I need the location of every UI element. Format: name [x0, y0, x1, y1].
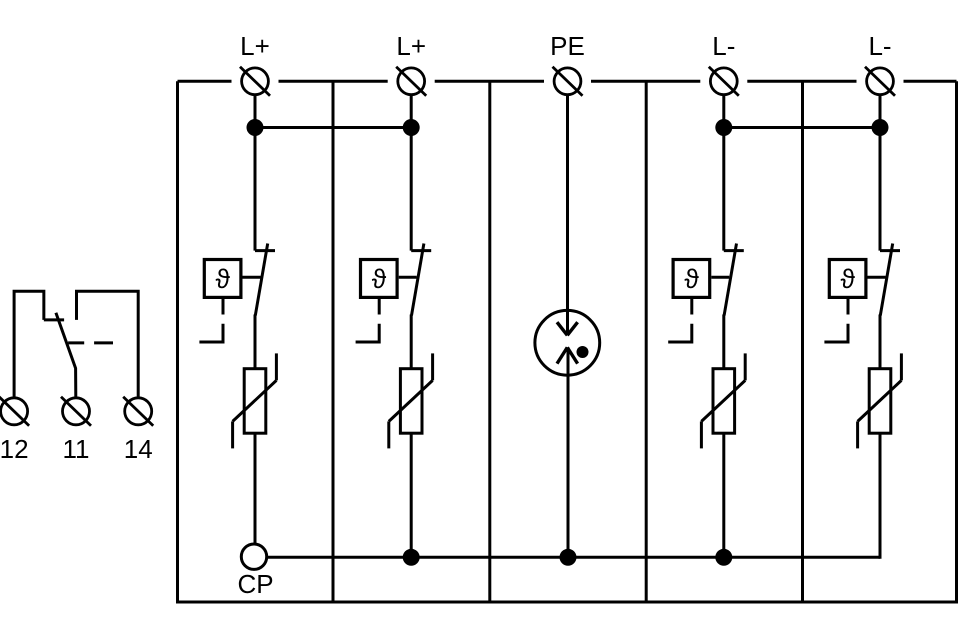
wire varistor col4 down to bus	[722, 433, 725, 557]
wire linking junction dots col1-col2	[255, 126, 411, 129]
terminal L- 4 (circle with slash)	[709, 67, 739, 96]
divider wall 3	[645, 81, 648, 602]
svg-text:L-: L-	[868, 31, 891, 61]
relay blade (changeover contact)	[56, 313, 76, 398]
junction dot col2 bottom	[403, 549, 420, 566]
wire linking junction dots col4-col5	[724, 126, 880, 129]
relay riser wire terminal 14	[77, 291, 139, 398]
wire varistor col1 down to CP	[254, 433, 257, 544]
svg-text:PE: PE	[550, 31, 585, 61]
svg-text:12: 12	[0, 434, 29, 464]
mechanical linkage (dashed) col1	[199, 298, 223, 343]
mechanical linkage (dashed) col4	[668, 298, 692, 343]
svg-text:CP: CP	[237, 569, 273, 599]
wire switch to varistor col1	[254, 315, 257, 370]
relay linkage dashes	[68, 341, 113, 344]
svg-text:14: 14	[124, 434, 153, 464]
svg-text:L-: L-	[712, 31, 735, 61]
svg-text:ϑ: ϑ	[841, 264, 856, 294]
svg-text:11: 11	[63, 434, 90, 464]
terminal PE 3 (circle with slash)	[553, 67, 583, 96]
junction dot col4 bottom	[715, 549, 732, 566]
junction dot PE bottom	[560, 549, 577, 566]
wire terminal 2 down to switch	[410, 94, 413, 251]
thermal sensor box col4 (theta)	[673, 260, 710, 298]
wire theta box to blade col1	[243, 276, 261, 279]
terminal 11 (circle with slash)	[61, 397, 91, 426]
wire terminal 4 down to switch	[722, 94, 725, 251]
thermal disconnector contact col4 (fixed contact tick)	[724, 249, 744, 252]
junction dot col4 top	[715, 119, 732, 136]
mechanical linkage (dashed) col5	[824, 298, 848, 343]
terminal L+ 1 (circle with slash)	[240, 67, 270, 96]
relay NC fixed contact tick (12)	[44, 318, 64, 321]
varistor (MOV) col5	[858, 353, 902, 448]
wire theta box to blade col2	[399, 276, 417, 279]
wire theta box to blade col5	[868, 276, 886, 279]
divider wall 1	[332, 81, 335, 602]
junction dot col1 top	[247, 119, 264, 136]
thermal disconnector blade col4	[724, 244, 736, 316]
wire switch to varistor col5	[879, 315, 882, 370]
junction dot col2 top	[403, 119, 420, 136]
wire varistor col2 down to bus	[410, 433, 413, 557]
mechanical linkage (dashed) col2	[356, 298, 380, 343]
CP terminal (open circle)	[241, 544, 266, 569]
wire theta box to blade col4	[711, 276, 729, 279]
divider wall 2	[488, 81, 491, 602]
junction dot col5 top	[872, 119, 889, 136]
varistor (MOV) col2	[389, 353, 433, 448]
svg-text:L+: L+	[240, 31, 270, 61]
spark gap (gas discharge tube) PE	[535, 310, 600, 375]
wire PE terminal down to spark gap	[566, 94, 569, 336]
thermal sensor box col2 (theta)	[361, 260, 398, 298]
terminal L+ 2 (circle with slash)	[396, 67, 426, 96]
svg-text:ϑ: ϑ	[216, 264, 231, 294]
wire spark gap down to bus	[567, 347, 570, 557]
thermal disconnector contact col5 (fixed contact tick)	[880, 249, 900, 252]
enclosure box outline	[178, 81, 957, 602]
relay riser wire terminal 12	[14, 291, 44, 398]
thermal disconnector contact col2 (fixed contact tick)	[411, 249, 431, 252]
thermal disconnector contact col1 (fixed contact tick)	[255, 249, 275, 252]
svg-text:L+: L+	[396, 31, 426, 61]
varistor (MOV) col1	[233, 353, 277, 448]
varistor (MOV) col4	[701, 353, 745, 448]
wire switch to varistor col4	[722, 315, 725, 370]
wire varistor col5 down to bus corner	[879, 433, 882, 559]
svg-text:ϑ: ϑ	[372, 264, 387, 294]
wire switch to varistor col2	[410, 315, 413, 370]
divider wall 4	[801, 81, 804, 602]
thermal disconnector blade col5	[880, 244, 892, 316]
terminal L- 5 (circle with slash)	[865, 67, 895, 96]
svg-text:ϑ: ϑ	[684, 264, 699, 294]
thermal sensor box col5 (theta)	[829, 260, 866, 298]
wire terminal 5 down to switch	[879, 94, 882, 251]
thermal disconnector blade col1	[255, 244, 267, 316]
wire terminal 1 down to switch	[254, 94, 257, 251]
bottom bus wire	[268, 556, 880, 559]
thermal sensor box col1 (theta)	[204, 260, 241, 298]
thermal disconnector blade col2	[412, 244, 424, 316]
terminal 12 (circle with slash)	[0, 397, 29, 426]
terminal 14 (circle with slash)	[123, 397, 153, 426]
